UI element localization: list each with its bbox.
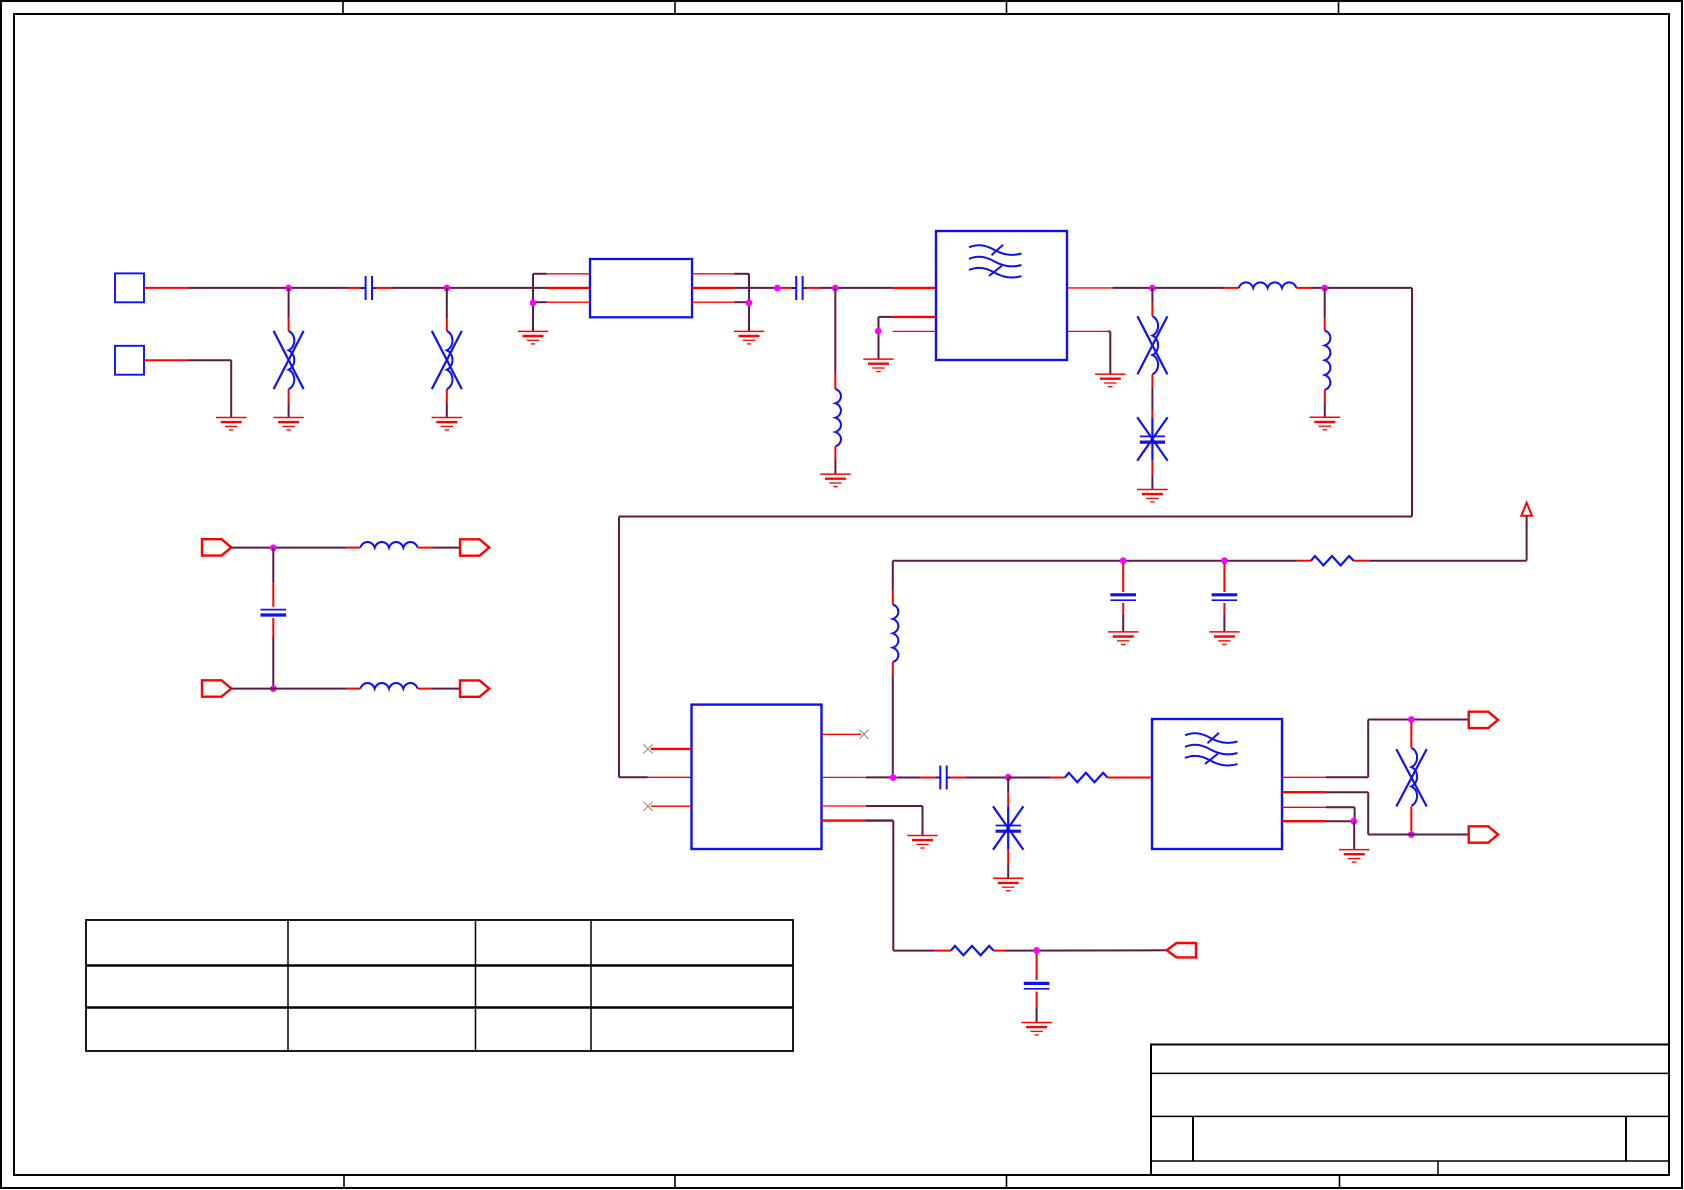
wire U1 left pin3 dark [533,301,547,303]
wire net segment D [1113,287,1225,289]
wire U2 input red [648,776,692,778]
wire U1 right pin1 red [692,273,734,275]
capacitor C9 [1024,983,1050,988]
wire L4 branch dark [1151,288,1153,302]
filter FL2 icon [1185,733,1238,766]
ground G3 (L2) [432,418,462,431]
sheet zone tick bottom 3 [1006,1175,1008,1188]
wire IF segment2 [1008,777,1050,779]
wire L1 to ground [288,404,290,418]
wire L4 red stub [1151,302,1153,316]
wire C5 top red [1122,563,1124,592]
mixer U2 [692,705,822,849]
wire L2 lower red stub [446,389,448,403]
junction node before C2 [774,285,781,292]
sheet zone tick top 1 [342,1,344,14]
wire FL1 output red [1067,287,1113,289]
wire FL2 pinA riser [1367,720,1369,778]
wire L7 to P2 [433,547,461,549]
wire C9 to ground [1036,1008,1038,1022]
variable inductor L2 [432,331,462,389]
wire IF segment [965,777,1008,779]
wire R2 right red [1108,777,1153,779]
inductor L5 [1239,282,1297,288]
trimmer capacitor C3 [1137,417,1167,461]
wire FL1 pin g3 down [1109,331,1111,374]
sheet zone tick top 4 [1338,1,1340,14]
block U1 [590,259,692,317]
wire L9 top red [892,590,894,605]
wire loop left vertical [618,517,620,778]
wire L1 branch upper [288,288,290,318]
wire C4 top red [272,583,274,607]
connector J2 [115,346,144,375]
wire L2 to ground [446,404,448,418]
wire C4 top dark [272,548,274,583]
ground G14 (C8) [993,878,1023,891]
wire L9 to mixer out [892,676,894,778]
wire FL1 pin g3 red [1067,330,1108,332]
wire U1 left pin3 red [547,301,590,303]
wire FL2 pinC red [1282,806,1326,808]
wire RSSI to port [1005,949,1167,951]
wire VCC rail left [893,560,1297,562]
ground G1 (J2) [216,418,246,431]
wire L2 branch upper [446,288,448,318]
no-connect X U2 pin3 [643,802,652,811]
wire L4 bottom red [1151,374,1153,388]
port P3 [202,680,231,696]
wire T3 bottom red [1410,807,1412,832]
wire U2 pinR1 red [822,733,861,735]
wire L3 red stub top [834,374,836,389]
wire net segment C [822,287,893,289]
sheet zone tick bottom 2 [674,1175,676,1188]
wire L7 left red [346,547,360,549]
wire FL2 pinC dark [1326,806,1355,808]
ground G6 (L3) [820,474,850,487]
wire RSSI down [892,821,894,951]
wire C7 right red [950,777,965,779]
junction node RFIN at L1 [285,285,292,292]
no-connect X U2 pinR1 [859,730,868,739]
junction T3 bottom [1408,831,1415,838]
capacitor C1 body [361,276,377,300]
ground G10 (L6) [1310,417,1340,430]
wire VCC arrow down [1526,516,1528,561]
ground G15 (FL2) [1339,850,1369,863]
inductor L9 [893,605,899,663]
wire VCC rail right [1369,560,1526,562]
sheet zone tick bottom 4 [1339,1175,1341,1188]
wire FL1 pin g1 dark [879,316,893,318]
wire L4 to C3 dark [1151,388,1153,410]
resistor R1 [1311,556,1354,565]
wire FL2 ground drop [1353,821,1355,849]
wire C5 to ground [1122,614,1124,632]
wire C5 bottom red [1122,603,1124,614]
wire C3 to ground [1151,475,1153,490]
wire U2 output red [822,776,867,778]
wire U2 RSSI thick red [822,819,866,821]
wire FL2 pinB dark [1326,791,1368,793]
wire U1 right ground bus [748,274,750,331]
wire P1 to node [231,547,346,549]
port P1 [202,539,231,555]
wire FL1 input thick red [893,287,936,289]
wire FL2 bottom out [1368,834,1469,836]
port P7 (RSSI) [1167,943,1196,957]
wire RSSI horizontal [893,950,935,952]
wire C3 bottom red [1151,461,1153,475]
wire FL2 pinB thick red [1282,791,1326,793]
ground G5 (U1 right) [734,331,764,344]
no-connect X U2 pin1 [643,744,652,753]
capacitor C2 [791,276,807,300]
junction node P3 [270,685,277,692]
power symbol VCC [1521,503,1532,516]
wire T3 top red [1410,722,1412,748]
wire C1 right red stub [375,287,391,289]
wire C1 left red stub [347,287,362,289]
inductor L8 [360,683,417,689]
ground G12 (C6) [1209,632,1239,645]
wire J2 pin stub [144,359,189,361]
wire R3 left red [935,950,951,952]
variable inductor L4 [1137,316,1167,374]
sheet zone tick bottom 1 [343,1175,345,1188]
filter FL2 [1152,719,1282,849]
wire L1 lower red stub [288,389,290,403]
junction RSSI [1033,947,1040,954]
capacitor C4 [261,610,287,615]
trimmer capacitor C8 [993,806,1023,850]
ground G8 (FL1 right) [1095,374,1125,387]
wire L3 red stub bottom [834,446,836,458]
wire FL2 pinA dark [1326,776,1368,778]
wire U2 gnd pin dark [866,805,923,807]
filter FL1 [936,231,1067,360]
wire FL2 pinD thick red [1282,820,1326,822]
wire C7 left red [920,777,937,779]
junction VCC C6 [1221,557,1228,564]
inductor L7 [360,542,417,548]
wire FL2 pinB drop [1367,792,1369,834]
wire VCC feed down dark [892,561,894,590]
wire U1 pin2 thick stub [547,287,590,289]
junction node L3 [832,285,839,292]
resistor R2 [1065,773,1108,782]
wire L9 bottom red [892,662,894,676]
ground G13 (U2) [907,836,937,849]
wire net RFIN segment A [189,287,348,289]
junction FL1 ground [875,328,882,335]
wire C8 bottom red [1007,850,1009,865]
wire C2 right red stub [806,287,822,289]
junction FL2 ground [1350,818,1357,825]
capacitor C6 [1212,595,1238,600]
wire J2 to ground horizontal [189,359,232,361]
wire J1 pin stub [144,287,189,289]
wire L3 branch dark [834,288,836,374]
wire loop horizontal [619,516,1412,518]
wire L8 to P4 [433,688,461,690]
junction node FL1 out [1149,285,1156,292]
wire L6 to ground [1324,404,1326,418]
wire L8 left red [346,688,360,690]
wire U1 right pin2 thick red [692,287,734,289]
wire FL2 pinD dark [1326,820,1354,822]
wire U1 right pin1 dark [734,273,749,275]
wire U1 left ground bus [532,274,534,331]
wire L7 right red [418,547,433,549]
capacitor C7 [936,766,952,790]
wire C6 to ground [1223,614,1225,632]
port P6 [1469,826,1498,842]
transformer T3 body [1396,748,1426,807]
ground G9 (C3) [1137,490,1167,503]
wire FL1 pin g1 thick red [893,316,936,318]
wire C3 top red [1151,410,1153,417]
wire U2 RSSI dark [865,819,893,821]
wire L8 right red [418,688,433,690]
junction node P1 [270,544,277,551]
connector J1 [115,273,144,302]
revision table [86,920,793,1051]
wire C6 top red [1223,563,1225,592]
junction node L6 [1321,285,1328,292]
capacitor C5 [1110,595,1136,600]
wire net segment B [391,287,547,289]
junction node at L2 [443,285,450,292]
junction node C8 [1005,774,1012,781]
wire L5 left red [1224,287,1239,289]
junction VCC C5 [1120,557,1127,564]
wire U1 right pin2 dark [734,287,777,289]
ground G7 (FL1 left) [863,359,893,372]
junction T3 top [1408,716,1415,723]
junction U1 left [530,300,537,307]
wire U2 output dark [866,776,893,778]
wire net segment E [1311,287,1412,289]
wire L2 branch red stub [446,318,448,331]
wire U1 right pin3 red [692,301,734,303]
wire L1 branch red stub [288,318,290,331]
wire U1 left pin1 red [547,273,590,275]
wire FL2 pinC drop [1354,807,1356,821]
wire U2 pin1 thick red [651,748,692,750]
ground G16 (C9) [1021,1023,1051,1036]
title block [1151,1045,1669,1176]
wire FL1 pin g3 corner [1108,330,1110,332]
wire C8 top red [1007,793,1009,807]
wire C4 bottom red [272,618,274,637]
port P5 [1469,712,1498,728]
wire loop to U2 dark [619,776,648,778]
wire C4 bottom dark [272,637,274,689]
wire U1 left pin1 dark [533,273,547,275]
ground G2 (L1) [273,418,303,431]
sheet zone tick top 2 [674,1,676,14]
wire C2 left red stub [781,287,794,289]
wire R1 right red [1354,560,1370,562]
wire IF out dark [897,777,921,779]
inductor L6 [1325,331,1331,390]
wire R1 left red [1297,560,1311,562]
wire C8 to ground [1007,864,1009,878]
wire FL2 top out [1368,719,1469,721]
wire U2 gnd pin red [822,805,867,807]
port P4 [460,680,489,696]
variable inductor L1 [274,331,304,389]
inductor L3 [835,389,841,446]
wire FL1 pin g2 red [893,330,936,332]
wire FL2 pinA red [1282,776,1326,778]
wire J2 to ground vertical [230,360,232,417]
wire U2 gnd pin down [922,806,924,835]
wire R3 right red [994,950,1005,952]
wire L3 to ground [834,458,836,473]
wire C8 top dark [1007,778,1009,793]
wire P3 to node [231,688,346,690]
wire U2 pin3 red [651,805,692,807]
wire L6 red stub [1324,317,1326,331]
resistor R3 [951,946,994,955]
ground G4 (U1 left) [518,331,548,344]
wire loop right vertical [1411,288,1413,517]
wire C9 bottom red [1036,992,1038,1008]
wire R2 left red [1050,777,1065,779]
wire C9 top red [1036,953,1038,980]
wire L6 bottom red [1324,390,1326,404]
sheet zone tick top 3 [1006,1,1008,14]
junction U1 right [746,300,753,307]
filter FL1 icon [969,245,1022,278]
wire L5 right red [1296,287,1311,289]
junction U2 output [890,774,897,781]
wire FL1 ground bus [878,317,880,359]
wire C6 bottom red [1223,603,1225,614]
port P2 [460,539,489,555]
wire U1 right pin3 dark [734,301,749,303]
wire L6 branch dark [1324,288,1326,317]
ground G11 (C5) [1108,632,1138,645]
